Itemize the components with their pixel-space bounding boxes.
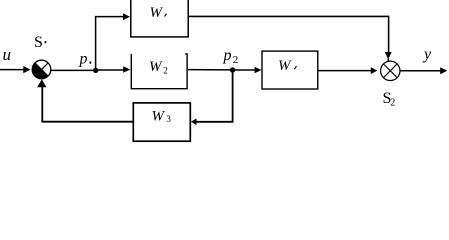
svg-text:W: W (150, 5, 164, 21)
svg-text:W: W (152, 108, 166, 124)
block W2 (top border faded, only corner hooks) (131, 54, 187, 89)
wire input u (0, 69, 24, 71)
stem into S2 top (387, 59, 389, 62)
svg-text:2: 2 (390, 98, 395, 109)
svg-text:2: 2 (233, 54, 239, 66)
arrowhead output (440, 67, 447, 74)
arrowhead into S1 left (23, 66, 30, 73)
arrowhead into W4 (255, 67, 262, 74)
wire W1 output over the top to S2 (189, 16, 389, 52)
svg-text:W: W (149, 59, 163, 75)
svg-text:2: 2 (163, 66, 168, 76)
wire S2 to output y (400, 70, 440, 72)
summing junction S1 (32, 60, 51, 79)
svg-text:y: y (422, 46, 432, 63)
block W3 (133, 103, 190, 141)
node p1 (93, 68, 98, 73)
wire W3 output to S1 bottom (42, 87, 133, 122)
arrowhead into S2 top (385, 52, 392, 59)
svg-text:u: u (3, 45, 12, 64)
wire W4 to S2 (319, 70, 372, 72)
wire p1 to W2 (96, 69, 124, 71)
arrowhead into S1 bottom (37, 79, 46, 87)
svg-text:W: W (278, 58, 292, 74)
block W1 (top border cropped at image top) (131, 0, 188, 37)
arrowhead into S2 left (371, 67, 378, 74)
node p2 (230, 67, 235, 72)
wire p2 to W4 (233, 69, 255, 71)
block W4 (262, 51, 318, 89)
summing junction S2 (381, 61, 400, 80)
svg-text:p: p (223, 47, 232, 64)
wire W2 to node p2 (188, 69, 230, 71)
svg-text:S: S (34, 34, 43, 51)
wire p1 up and right to W1 (96, 17, 124, 70)
svg-text:3: 3 (166, 114, 171, 124)
svg-text:p: p (79, 51, 88, 68)
arrowhead into W2 (123, 66, 130, 73)
arrowhead into W1 (123, 13, 130, 20)
arrowhead into W3 right (191, 119, 197, 126)
wire S1 to node p1 (51, 69, 96, 71)
wire p2 down and left to W3 (196, 71, 232, 122)
